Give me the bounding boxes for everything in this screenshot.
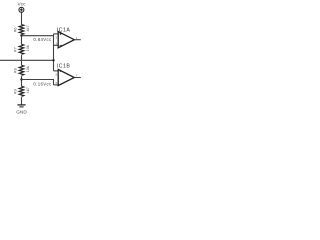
op-amp IC1A xyxy=(56,28,81,48)
svg-text:10k: 10k xyxy=(25,66,30,72)
wire tap 0.16Vcc to jog xyxy=(22,79,55,81)
wire tap 0.84Vcc to jog xyxy=(22,35,55,37)
wire input signal from left edge xyxy=(0,59,54,61)
wire jog tap2 down to IC1B -in xyxy=(53,80,55,85)
svg-text:1: 1 xyxy=(76,36,78,40)
wire pin stub IC1B +in xyxy=(54,70,59,72)
wire Vcc to R6 xyxy=(21,13,23,25)
junction node 0.84Vcc xyxy=(20,34,22,36)
svg-text:R9: R9 xyxy=(13,89,18,94)
svg-text:Vcc: Vcc xyxy=(18,2,27,8)
svg-text:R8: R8 xyxy=(13,68,18,73)
svg-text:6: 6 xyxy=(56,81,58,85)
svg-text:IC1B: IC1B xyxy=(57,63,71,69)
resistor R7 xyxy=(19,44,24,54)
svg-text:7: 7 xyxy=(76,74,78,78)
resistor R8 xyxy=(19,65,24,75)
svg-text:2: 2 xyxy=(56,36,58,40)
svg-text:GND: GND xyxy=(16,109,27,114)
wire pin stub IC1B -in xyxy=(54,84,59,86)
svg-text:4k7: 4k7 xyxy=(25,87,30,93)
svg-text:3: 3 xyxy=(56,41,58,45)
svg-text:4k7: 4k7 xyxy=(25,25,30,31)
svg-text:10k: 10k xyxy=(25,45,30,51)
wire pin stub IC1A -in xyxy=(54,44,59,46)
supply symbol VCC xyxy=(19,7,24,12)
resistor R9 xyxy=(19,86,24,96)
svg-text:5: 5 xyxy=(56,73,58,77)
op-amp IC1B xyxy=(56,63,81,85)
svg-text:0.84Vcc: 0.84Vcc xyxy=(33,37,52,42)
wire R7 to R8 xyxy=(21,55,23,65)
junction input branch xyxy=(52,59,54,61)
wire pin stub IC1A +in xyxy=(54,33,59,35)
wire R9 to GND xyxy=(21,97,23,105)
svg-text:0.16Vcc: 0.16Vcc xyxy=(33,82,52,87)
wire R8 to node xyxy=(21,76,23,86)
ground xyxy=(17,104,25,106)
wire R6 to node xyxy=(21,35,23,44)
junction node 0.16Vcc xyxy=(20,78,22,80)
resistor R6 xyxy=(19,25,24,35)
wire vertical branch x=53.5 xyxy=(53,34,55,71)
svg-text:R6: R6 xyxy=(13,27,18,32)
svg-text:R7: R7 xyxy=(13,47,18,52)
